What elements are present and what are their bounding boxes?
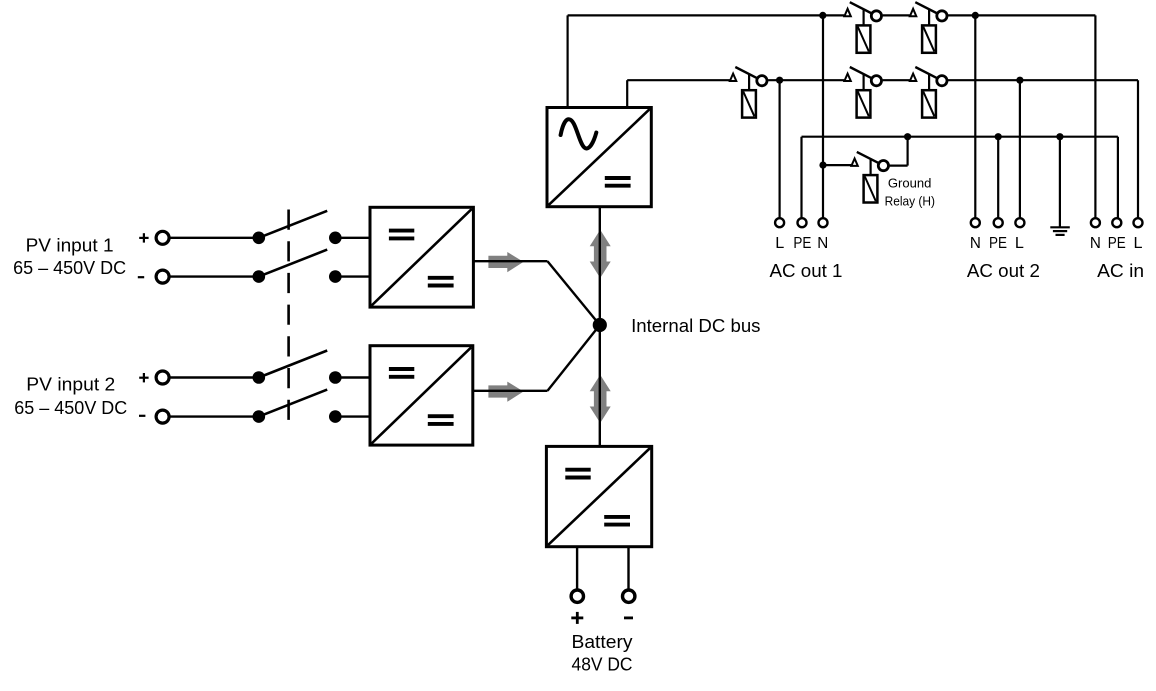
svg-text:PE: PE (989, 235, 1007, 252)
svg-text:PE: PE (1108, 235, 1126, 252)
polarity - (PV1) (138, 276, 144, 278)
terminal AC out1 N (819, 218, 828, 227)
wire drop AC in PE (1117, 137, 1119, 219)
svg-text:Battery: Battery (572, 631, 634, 652)
wire battery - (627, 547, 629, 589)
relay K4 (row2 middle) contact triangle (844, 74, 850, 81)
junction row2 / AC out2 L (1016, 77, 1023, 84)
relay K4 (row2 middle) actuator link (862, 74, 864, 91)
switch S1b output junction (329, 270, 342, 283)
MPPT 1 (DC/DC) DC symbol top-left (389, 229, 414, 233)
inverter/charger (DC/AC) AC sine symbol top-left (561, 119, 597, 148)
wire MPPT1 to DC bus node (548, 261, 600, 325)
MPPT 2 (DC/DC) DC symbol top-left (389, 367, 414, 371)
relay K5 (row2 right) actuator link (928, 74, 930, 91)
svg-text:PV input 1: PV input 1 (26, 234, 114, 255)
earth/ground symbol (1050, 226, 1070, 228)
junction AC out1 N / ground relay tap (819, 162, 826, 169)
relay K2 (row1 right) moving contact circle (937, 11, 947, 21)
polarity + (battery) (571, 617, 583, 620)
wire row1 to AC-in N drop (948, 14, 1096, 16)
switch S1a pole junction (252, 232, 265, 245)
wire switch to converter (PV1+) (335, 237, 370, 239)
svg-text:PE: PE (793, 235, 811, 252)
junction row1 / AC out1 N (819, 12, 826, 19)
switch gang dashed link (287, 210, 290, 421)
relay ground relay (H) moving contact circle (878, 161, 888, 171)
wire AC row2 from inverter (627, 79, 729, 81)
switch S1b blade (259, 250, 327, 277)
svg-text:Relay (H): Relay (H) (885, 194, 935, 208)
wire drop AC out1 PE (800, 137, 802, 219)
svg-text:48V DC: 48V DC (572, 654, 633, 675)
converter battery DC/DC converter body (546, 446, 651, 546)
terminal AC out2 L (1015, 218, 1024, 227)
svg-text:N: N (817, 235, 828, 252)
converter MPPT 2 (DC/DC) body (370, 346, 473, 445)
relay K3 (row2 left) coil (742, 90, 756, 117)
polarity + (PV1) (139, 237, 148, 239)
wire inverter output L up (566, 15, 568, 107)
wire drop AC out1 L (778, 80, 780, 218)
switch S2a blade (259, 351, 327, 378)
terminal AC out2 PE (994, 218, 1003, 227)
wire PE bus (802, 136, 1118, 138)
wire ground relay riser to PE bus (906, 137, 908, 166)
wire battery + (576, 547, 578, 589)
wire internal DC bus vertical (599, 207, 601, 447)
svg-text:AC out 2: AC out 2 (967, 260, 1040, 281)
terminal AC out2 N (971, 218, 980, 227)
switch S2b output junction (329, 410, 342, 423)
battery DC/DC converter DC symbol bottom-right (604, 515, 630, 519)
relay K2 (row1 right) actuator link (928, 9, 930, 26)
switch S1a blade (259, 211, 327, 238)
polarity - (battery) (624, 617, 633, 620)
MPPT 2 (DC/DC) DC symbol bottom-right (428, 414, 454, 418)
terminal AC in PE (1112, 218, 1121, 227)
relay K5 (row2 right) contact triangle (910, 74, 916, 81)
terminal PV2- (156, 410, 169, 423)
wire PV1- terminal to switch (170, 275, 259, 277)
wire PV2+ terminal to switch (170, 376, 259, 378)
wire drop AC out2 PE (997, 137, 999, 219)
wire PV2- terminal to switch (170, 415, 259, 417)
relay K3 (row2 left) blade (735, 67, 757, 78)
relay K1 (row1 left) actuator link (862, 9, 864, 26)
wire ground relay to PE riser (890, 165, 908, 167)
polarity - (PV2) (139, 415, 145, 417)
terminal PV2+ (156, 371, 169, 384)
relay K1 (row1 left) moving contact circle (871, 11, 881, 21)
relay ground relay (H) blade (857, 152, 879, 163)
relay ground relay (H) actuator link (869, 159, 871, 176)
relay K5 (row2 right) moving contact circle (937, 76, 947, 86)
terminal AC out1 L (775, 218, 784, 227)
wire MPPT1 output (474, 260, 548, 262)
relay ground relay (H) contact triangle (851, 159, 857, 166)
relay K3 (row2 left) moving contact circle (757, 76, 767, 86)
wire drop AC in L (1137, 80, 1139, 218)
junction row2 / AC out1 L (776, 77, 783, 84)
terminal AC out1 PE (798, 218, 807, 227)
switch S2a output junction (329, 371, 342, 384)
relay ground relay (H) coil (864, 175, 878, 202)
wire row2 to AC-in L drop (948, 79, 1138, 81)
wire MPPT2 output (474, 390, 548, 392)
relay K4 (row2 middle) moving contact circle (871, 76, 881, 86)
wire PV1+ terminal to switch (170, 237, 259, 239)
svg-text:L: L (775, 235, 784, 252)
relay K3 (row2 left) actuator link (748, 74, 750, 91)
battery DC/DC converter DC symbol top-left (565, 468, 590, 472)
wire drop AC out2 L (1019, 80, 1021, 218)
relay K2 (row1 right) coil (922, 25, 936, 52)
wire inverter output N up (626, 80, 628, 107)
svg-text:65 – 450V DC: 65 – 450V DC (13, 257, 126, 278)
svg-text:Ground: Ground (888, 177, 932, 191)
power flow arrow MPPT1 output (488, 252, 523, 272)
junction row1 / AC out2 N (972, 12, 979, 19)
terminal PV1+ (156, 231, 169, 244)
power flow arrow MPPT2 output (488, 382, 523, 402)
terminal AC in N (1091, 218, 1100, 227)
terminal PV1- (156, 270, 169, 283)
wire row2 to middle relays (768, 79, 844, 81)
wire AC out1 N to ground relay (823, 164, 851, 166)
wire MPPT2 to DC bus node (548, 325, 600, 391)
junction PE bus / ground relay (904, 133, 911, 140)
svg-text:N: N (1090, 235, 1101, 252)
power flow arrow inverter/DC-bus (bidirectional) (590, 230, 611, 278)
svg-text:N: N (970, 235, 981, 252)
node internal DC bus junction (593, 318, 607, 332)
junction PE bus / AC out2 PE (995, 133, 1002, 140)
MPPT 1 (DC/DC) DC symbol bottom-right (428, 276, 454, 280)
terminal battery + (571, 590, 583, 602)
relay K1 (row1 left) contact triangle (844, 9, 850, 16)
svg-text:AC in: AC in (1097, 260, 1144, 281)
converter MPPT 1 (DC/DC) body (370, 207, 473, 307)
wire drop to earth (1059, 137, 1061, 227)
relay K2 (row1 right) contact triangle (910, 9, 916, 16)
wire switch to converter (PV1-) (335, 275, 370, 277)
relay K1 (row1 left) coil (857, 25, 871, 52)
wire drop AC in N (1094, 15, 1096, 218)
inverter/charger (DC/AC) DC symbol bottom-right (605, 176, 631, 180)
switch S2b pole junction (252, 410, 265, 423)
svg-text:65 – 450V DC: 65 – 450V DC (14, 397, 127, 418)
svg-text:Internal DC bus: Internal DC bus (631, 316, 760, 336)
converter inverter/charger (DC/AC) body (547, 108, 651, 207)
wire row2 between relays (883, 79, 910, 81)
relay K3 (row2 left) contact triangle (730, 74, 736, 81)
wire AC row1 from inverter (568, 14, 844, 16)
relay K4 (row2 middle) blade (850, 67, 872, 78)
switch S2b blade (259, 390, 327, 417)
switch S1b pole junction (252, 270, 265, 283)
relay K5 (row2 right) coil (922, 90, 936, 117)
wire drop AC out1 N (822, 15, 824, 218)
wire switch to converter (PV2+) (335, 376, 370, 378)
wire switch to converter (PV2-) (335, 415, 370, 417)
power flow arrow battery/DC-bus (bidirectional) (590, 375, 611, 423)
relay K1 (row1 left) blade (850, 2, 872, 13)
relay K5 (row2 right) blade (915, 67, 937, 78)
svg-text:PV input 2: PV input 2 (26, 374, 115, 395)
svg-text:AC out 1: AC out 1 (770, 260, 843, 281)
polarity + (PV2) (139, 377, 148, 379)
svg-text:L: L (1015, 235, 1024, 252)
switch S2a pole junction (252, 371, 265, 384)
terminal battery - (623, 590, 635, 602)
switch S1a output junction (329, 232, 342, 245)
junction PE bus / earth (1056, 133, 1063, 140)
wire drop AC out2 N (974, 15, 976, 218)
svg-text:L: L (1134, 235, 1143, 252)
relay K2 (row1 right) blade (915, 2, 937, 13)
wire row1 between relays (883, 14, 910, 16)
relay K4 (row2 middle) coil (857, 90, 871, 117)
terminal AC in L (1134, 218, 1143, 227)
